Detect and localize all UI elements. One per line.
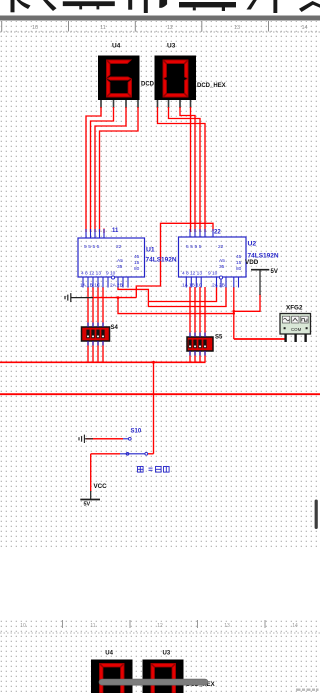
svg-text:U1: U1 (146, 247, 155, 254)
svg-text:A5: A5 (117, 258, 123, 264)
svg-text:9 10: 9 10 (208, 271, 218, 277)
svg-text:12: 12 (157, 623, 163, 629)
svg-text:A5: A5 (219, 258, 225, 264)
svg-text:10: 10 (32, 25, 38, 31)
svg-text:13: 13 (234, 25, 240, 31)
svg-text:5555: 5555 (186, 244, 203, 250)
svg-text:15: 15 (236, 260, 242, 266)
svg-text:COM: COM (291, 327, 302, 332)
svg-text:11: 11 (100, 25, 106, 31)
svg-text:22: 22 (218, 244, 224, 250)
svg-text:2A 2B: 2A 2B (212, 283, 225, 289)
svg-text:12: 12 (167, 25, 173, 31)
svg-text:U3: U3 (167, 43, 176, 50)
svg-text:DCD: DCD (141, 82, 155, 88)
svg-text:11: 11 (90, 623, 95, 629)
svg-text:U4: U4 (112, 43, 121, 50)
svg-text:5555: 5555 (84, 244, 101, 250)
svg-text:U4: U4 (105, 651, 113, 657)
svg-text:22: 22 (116, 244, 122, 250)
svg-text:11: 11 (112, 228, 119, 234)
svg-text:74LS192N: 74LS192N (146, 257, 177, 264)
svg-text:5V: 5V (84, 502, 91, 508)
svg-text:XFG2: XFG2 (286, 305, 303, 312)
svg-text:1A 1B 1C: 1A 1B 1C (182, 283, 203, 289)
svg-text:4 8 12 13: 4 8 12 13 (81, 271, 101, 277)
svg-text:80: 80 (134, 266, 140, 272)
svg-text:14: 14 (301, 25, 307, 31)
svg-text:S10: S10 (131, 429, 142, 435)
svg-text:S4: S4 (111, 325, 119, 331)
svg-text:45: 45 (134, 254, 140, 260)
svg-text:DCD_HEX: DCD_HEX (197, 83, 226, 89)
svg-text:VCC: VCC (94, 483, 108, 490)
svg-text:80: 80 (236, 266, 242, 272)
svg-text:2A 2B: 2A 2B (110, 283, 123, 289)
svg-text:45: 45 (236, 254, 242, 260)
svg-text:U3: U3 (163, 651, 171, 657)
svg-text:1A 1B 1C: 1A 1B 1C (80, 283, 101, 289)
svg-text:14: 14 (292, 623, 298, 629)
svg-text:15: 15 (134, 260, 140, 266)
svg-text:VDD: VDD (245, 259, 259, 266)
svg-text:13: 13 (224, 623, 230, 629)
svg-text:U2: U2 (248, 241, 257, 248)
svg-text:S5: S5 (215, 335, 223, 341)
svg-text:35: 35 (219, 264, 225, 270)
svg-text:22: 22 (214, 230, 221, 236)
svg-text:9 10: 9 10 (106, 271, 116, 277)
svg-text:4 8 12 13: 4 8 12 13 (182, 271, 202, 277)
svg-text:35: 35 (117, 264, 123, 270)
svg-text:5V: 5V (271, 269, 278, 275)
svg-text:10: 10 (20, 623, 26, 629)
